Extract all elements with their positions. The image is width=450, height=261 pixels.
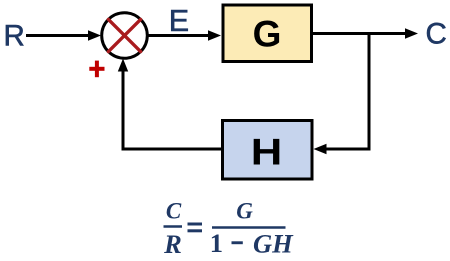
svg-text:H: H — [251, 131, 283, 173]
summing junction red X — [108, 19, 140, 51]
arrowhead at output C — [405, 28, 418, 38]
arrowhead into summing junction bottom — [118, 59, 128, 72]
summing junction circle — [102, 13, 148, 59]
svg-text:C: C — [426, 18, 447, 51]
block G — [223, 5, 312, 62]
plus sign — [89, 61, 104, 78]
svg-text:E: E — [169, 4, 189, 38]
svg-text:R: R — [4, 20, 25, 53]
svg-text:1GH: 1GH — [210, 228, 294, 259]
wire feedback up to summing junction — [122, 68, 125, 151]
wire G to output C — [313, 32, 408, 35]
wire takeoff junction down from output line — [368, 34, 371, 151]
wire takeoff to block H — [324, 148, 371, 151]
wire H back to summing junction (horizontal) — [123, 148, 221, 151]
svg-text:C: C — [166, 199, 182, 224]
block H — [223, 121, 313, 180]
svg-text:R: R — [163, 229, 182, 259]
equals sign — [188, 223, 203, 233]
svg-text:G: G — [253, 14, 282, 55]
arrowhead into block G — [208, 30, 221, 40]
wire summing junction to block G — [148, 34, 211, 37]
formula C over R — [163, 199, 182, 260]
formula minus sign — [232, 241, 243, 244]
fraction bar left — [164, 225, 183, 228]
arrowhead into summing junction — [88, 30, 101, 40]
fraction bar right — [212, 226, 286, 229]
arrowhead into block H — [314, 144, 327, 154]
svg-text:G: G — [236, 199, 253, 224]
wire R to summing junction — [26, 34, 91, 37]
